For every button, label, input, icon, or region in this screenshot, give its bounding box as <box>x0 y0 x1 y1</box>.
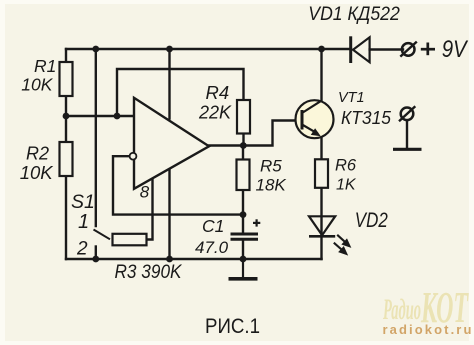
wire switch common from top rail <box>95 49 97 226</box>
wire R5 bottom to C1 node <box>242 190 244 215</box>
svg-text:47.0: 47.0 <box>195 238 229 257</box>
svg-text:R4: R4 <box>206 82 230 103</box>
wire emitter to R6 <box>320 138 322 160</box>
svg-text:R3 390K: R3 390K <box>115 261 183 283</box>
wire op-amp V+ pin <box>168 49 170 119</box>
svg-text:10K: 10K <box>20 162 55 183</box>
node bottom rail C1 junction <box>240 256 247 263</box>
resistor R1 <box>60 62 73 96</box>
resistor R6 <box>315 159 328 188</box>
op-amp inverting input circle <box>130 153 137 160</box>
plus sign (9V) <box>421 43 435 56</box>
capacitor C1 plus sign <box>253 219 260 226</box>
wire op-amp pin 8 to R3 <box>147 178 153 240</box>
svg-text:C1: C1 <box>202 216 224 236</box>
wire left branch to R1 <box>65 49 67 62</box>
svg-text:22K: 22K <box>198 103 232 123</box>
wire divider to op-amp plus input <box>66 115 134 117</box>
svg-text:R6: R6 <box>335 157 357 175</box>
ground (X2) <box>393 148 422 151</box>
svg-text:8: 8 <box>140 183 150 202</box>
wire terminal X2 to ground <box>406 121 408 149</box>
svg-text:РИС.1: РИС.1 <box>205 314 260 338</box>
svg-text:1: 1 <box>78 211 89 233</box>
svg-text:S1: S1 <box>71 191 95 213</box>
svg-text:1K: 1K <box>336 176 357 193</box>
wire R5 top <box>242 146 244 160</box>
svg-text:R2: R2 <box>26 143 49 163</box>
LED VD2 emission arrows <box>334 235 350 254</box>
op-amp U1 <box>134 98 209 189</box>
wire op-amp V- pin to bottom rail <box>168 169 170 259</box>
resistor R2 <box>60 142 73 176</box>
wire R1 bottom to R2 top <box>65 96 67 142</box>
node bottom rail V- junction <box>166 256 173 263</box>
svg-text:R5: R5 <box>260 156 282 175</box>
wire inverting input to R5 bottom node <box>113 156 243 214</box>
node output R4 R5 junction <box>240 142 247 149</box>
node divider junction <box>63 113 70 120</box>
wire bottom rail <box>66 258 322 260</box>
svg-text:VD1 КД522: VD1 КД522 <box>308 3 400 25</box>
wire C1 bottom lead <box>242 239 244 259</box>
transistor Q1 VT1 circle <box>296 100 334 138</box>
svg-text:18K: 18K <box>256 175 287 194</box>
LED VD2 <box>309 216 335 235</box>
terminal X1 (+9V) <box>402 43 415 56</box>
wire diode to terminal <box>370 48 403 50</box>
wire R6 bottom to LED <box>320 188 322 236</box>
resistor R4 <box>237 100 250 134</box>
svg-text:VT1: VT1 <box>338 90 365 106</box>
wire LED cathode to bottom rail <box>320 236 322 259</box>
wire switch contact 2 to bottom rail <box>95 247 97 260</box>
wire feedback from R4 top to plus input <box>117 69 244 116</box>
wire collector to top rail <box>320 49 322 102</box>
wire C1 top lead <box>242 215 244 234</box>
node top rail collector junction <box>318 46 325 53</box>
wire R4 bottom to output line <box>242 134 244 146</box>
wire R2 bottom to bottom rail <box>65 176 67 259</box>
wire op-amp output to transistor base <box>209 121 300 146</box>
svg-text:radiokot.ru: radiokot.ru <box>383 322 474 337</box>
transistor VT1 emitter diagonal with arrow <box>302 125 318 134</box>
svg-text:10K: 10K <box>21 75 53 95</box>
svg-text:9V: 9V <box>442 36 469 63</box>
transistor VT1 base bar <box>301 110 304 130</box>
node top rail switch junction <box>92 46 99 53</box>
wire top rail <box>66 48 351 50</box>
node plus-input feedback junction <box>114 113 121 120</box>
transistor VT1 collector diagonal <box>302 101 321 113</box>
node bottom rail switch junction <box>92 256 99 263</box>
svg-text:КТ315: КТ315 <box>341 107 392 128</box>
terminal X2 <box>401 108 414 121</box>
switch S1 lever <box>94 230 111 240</box>
node top rail V+ junction <box>166 46 173 53</box>
resistor R3 <box>113 234 147 246</box>
node inverting C1 junction <box>240 211 247 218</box>
resistor R5 <box>237 160 250 191</box>
svg-text:2: 2 <box>76 239 88 260</box>
ground (C1 bottom) <box>242 259 244 279</box>
svg-text:R1: R1 <box>34 56 56 76</box>
diode VD1 <box>349 36 352 63</box>
svg-text:VD2: VD2 <box>355 208 388 232</box>
capacitor C1 <box>231 234 259 239</box>
